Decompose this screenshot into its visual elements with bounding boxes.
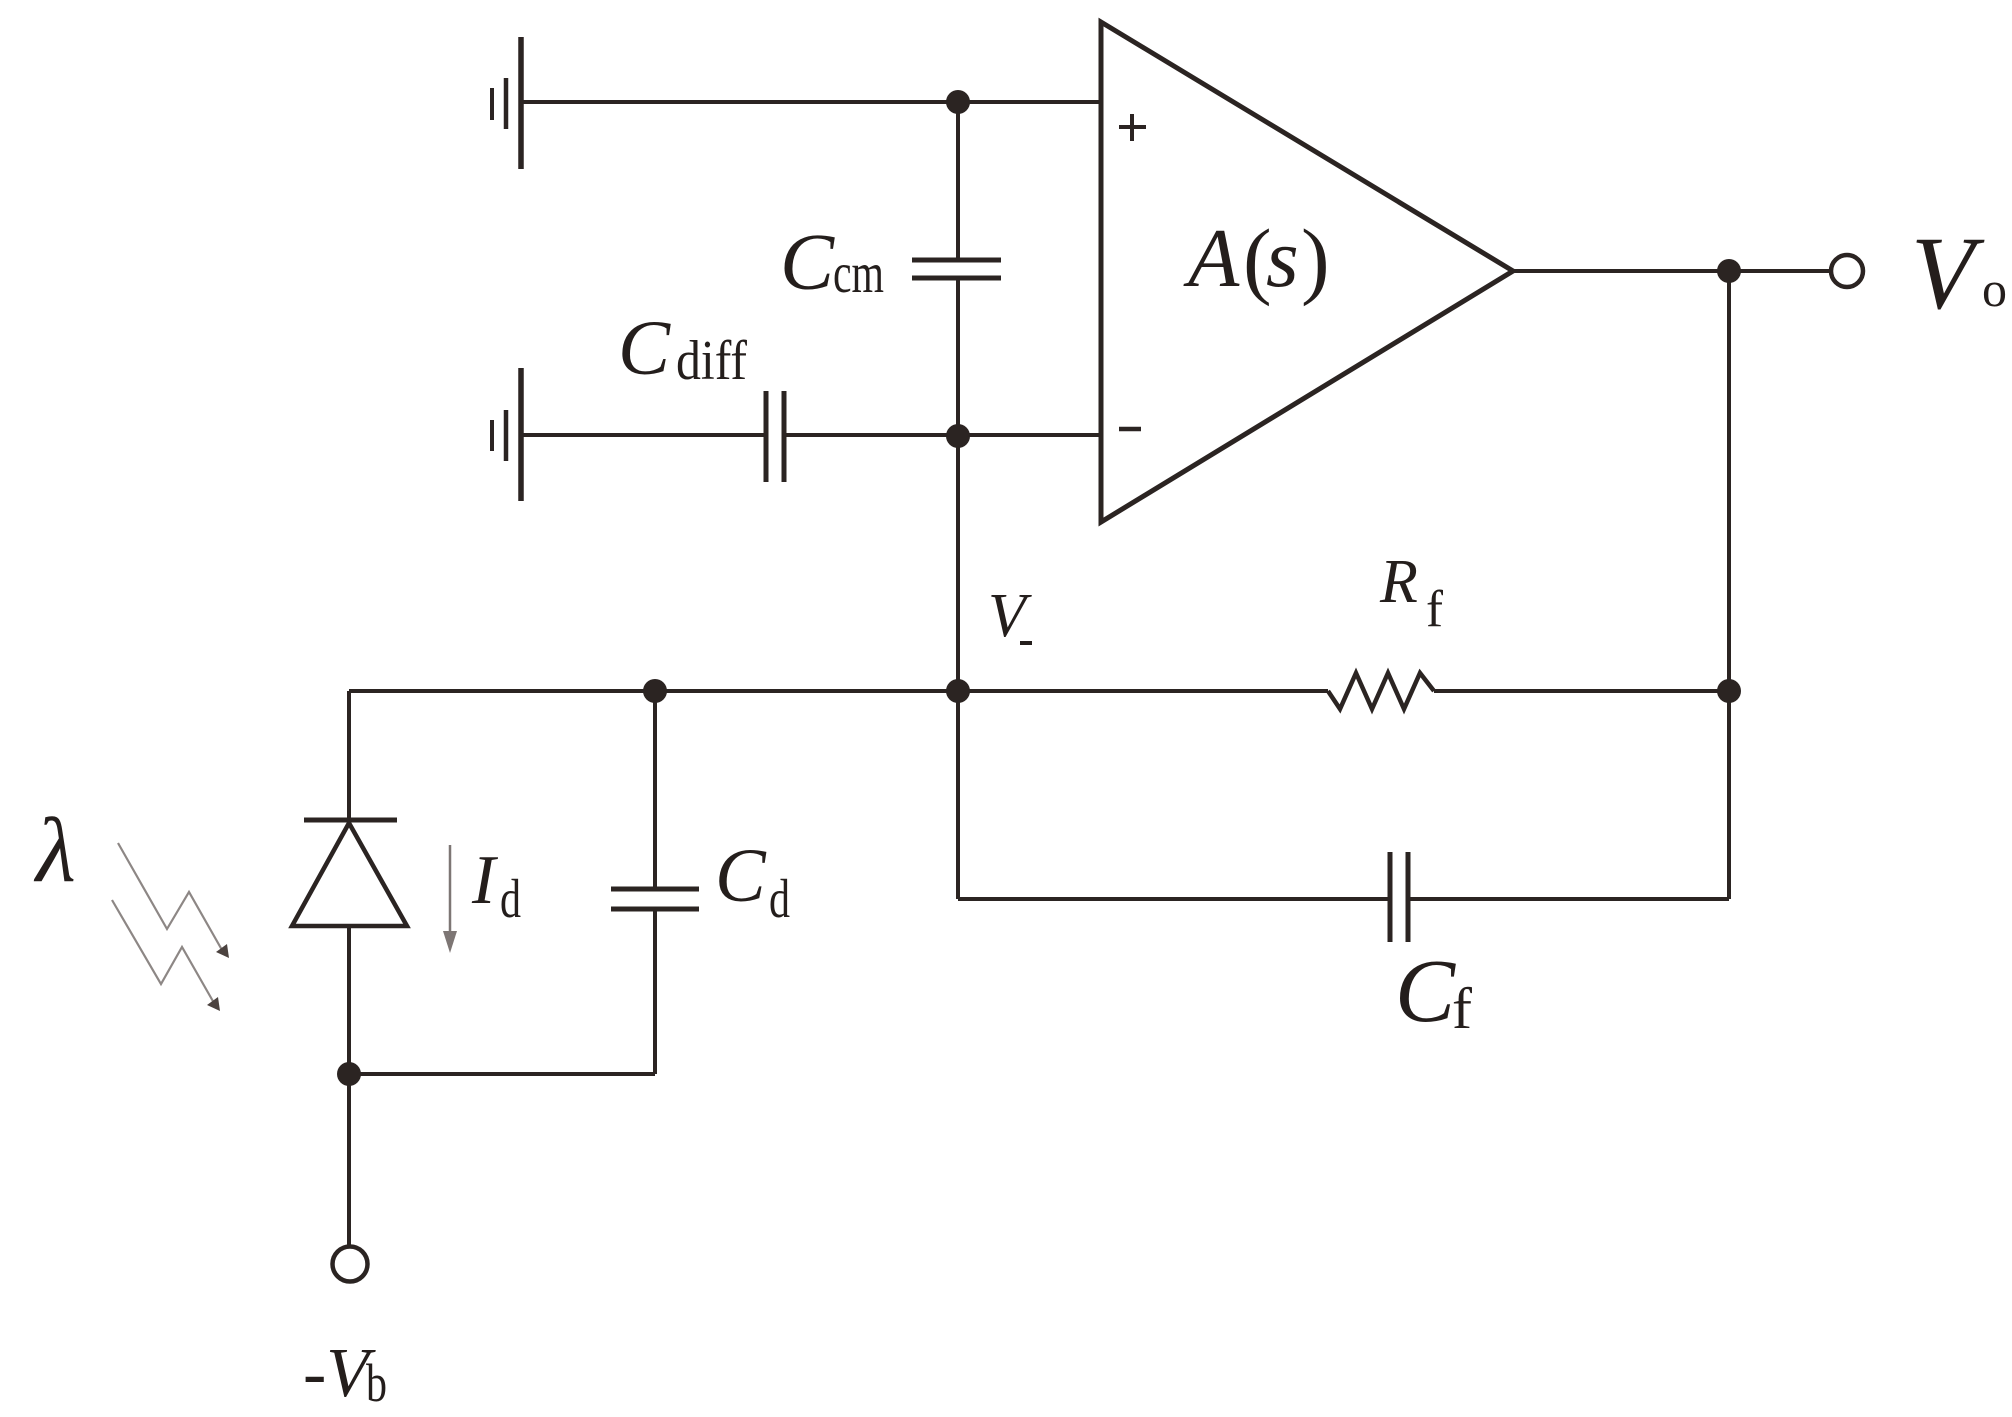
node junction dot at inverting input	[946, 424, 970, 448]
svg-text:C: C	[715, 834, 767, 918]
label Rf	[1379, 548, 1444, 638]
photodiode D1	[292, 820, 407, 926]
svg-text:I: I	[471, 842, 499, 919]
node junction dot V-	[946, 679, 970, 703]
capacitor Cd	[611, 889, 699, 909]
svg-text:d: d	[500, 868, 521, 929]
node junction dot at + input / Ccm top	[946, 90, 970, 114]
node junction dot feedback right	[1717, 679, 1741, 703]
svg-text:s: s	[1266, 212, 1299, 305]
svg-text:o: o	[1982, 261, 2007, 317]
svg-text:R: R	[1379, 548, 1418, 616]
terminal Vo (open circle)	[1831, 255, 1863, 287]
svg-text:C: C	[618, 304, 671, 391]
wire Ccm bottom to V- node	[956, 278, 960, 691]
label -Vb	[303, 1335, 387, 1413]
label Id	[471, 842, 521, 929]
label Cd	[715, 834, 790, 929]
op-amp A(s)	[1101, 22, 1513, 522]
wire Cf to output branch right	[1410, 897, 1729, 901]
svg-text:f: f	[1452, 976, 1473, 1041]
svg-text:λ: λ	[33, 799, 76, 901]
label A(s)	[1183, 211, 1330, 307]
svg-text:diff: diff	[676, 330, 747, 392]
ground symbol GND2 (Cdiff)	[492, 368, 521, 501]
capacitor Cf	[1390, 852, 1408, 942]
svg-text:f: f	[1426, 581, 1444, 638]
terminal -Vb (open circle)	[333, 1247, 368, 1282]
capacitor Ccm	[912, 260, 1001, 278]
wire Ccm top stub	[956, 102, 960, 259]
wire Cd top stub	[653, 691, 657, 889]
label Cf	[1395, 942, 1473, 1041]
label Vo	[1911, 216, 2007, 331]
resistor Rf	[1328, 673, 1434, 709]
light arrow 2	[112, 900, 220, 1011]
wire GND1 to op-amp + input	[521, 100, 1101, 104]
wire V- node down (left side of Cf loop)	[956, 691, 960, 899]
wire V- net horizontal	[349, 689, 1328, 693]
wire Cdiff to op-amp - input	[786, 433, 1101, 437]
wire Cd bottom stub	[653, 909, 657, 1074]
wire photodiode anode down	[347, 926, 351, 1245]
wire bottom horizontal to Cd	[349, 1072, 655, 1076]
svg-text:A: A	[1183, 212, 1240, 305]
wire photodiode cathode to V- net	[347, 691, 351, 820]
wire Rf to output node	[1434, 689, 1729, 693]
capacitor Cdiff	[766, 391, 784, 482]
arrow Id (current direction)	[443, 845, 457, 953]
wire output node down to feedback	[1727, 271, 1731, 899]
svg-text:V: V	[988, 582, 1032, 650]
svg-text:cm: cm	[833, 242, 884, 305]
wire bottom feedback left	[958, 897, 1388, 901]
svg-text:b: b	[366, 1353, 387, 1413]
wire GND2 to Cdiff	[521, 433, 764, 437]
wire op-amp output	[1513, 269, 1831, 273]
ground symbol GND1 (non-inverting input)	[492, 37, 521, 169]
svg-text:): )	[1301, 211, 1330, 307]
light arrow 1	[118, 843, 229, 958]
node junction dot anode/Cd bottom	[337, 1062, 361, 1086]
svg-text:C: C	[780, 217, 835, 307]
label Cdiff	[618, 304, 747, 392]
node junction dot Cd top	[643, 679, 667, 703]
label V-	[988, 582, 1032, 650]
svg-text:d: d	[769, 868, 790, 929]
svg-text:V: V	[1911, 216, 1985, 331]
label Ccm	[780, 217, 884, 307]
node junction dot at output	[1717, 259, 1741, 283]
label lambda (incident light)	[33, 799, 76, 901]
svg-text:C: C	[1395, 942, 1456, 1041]
